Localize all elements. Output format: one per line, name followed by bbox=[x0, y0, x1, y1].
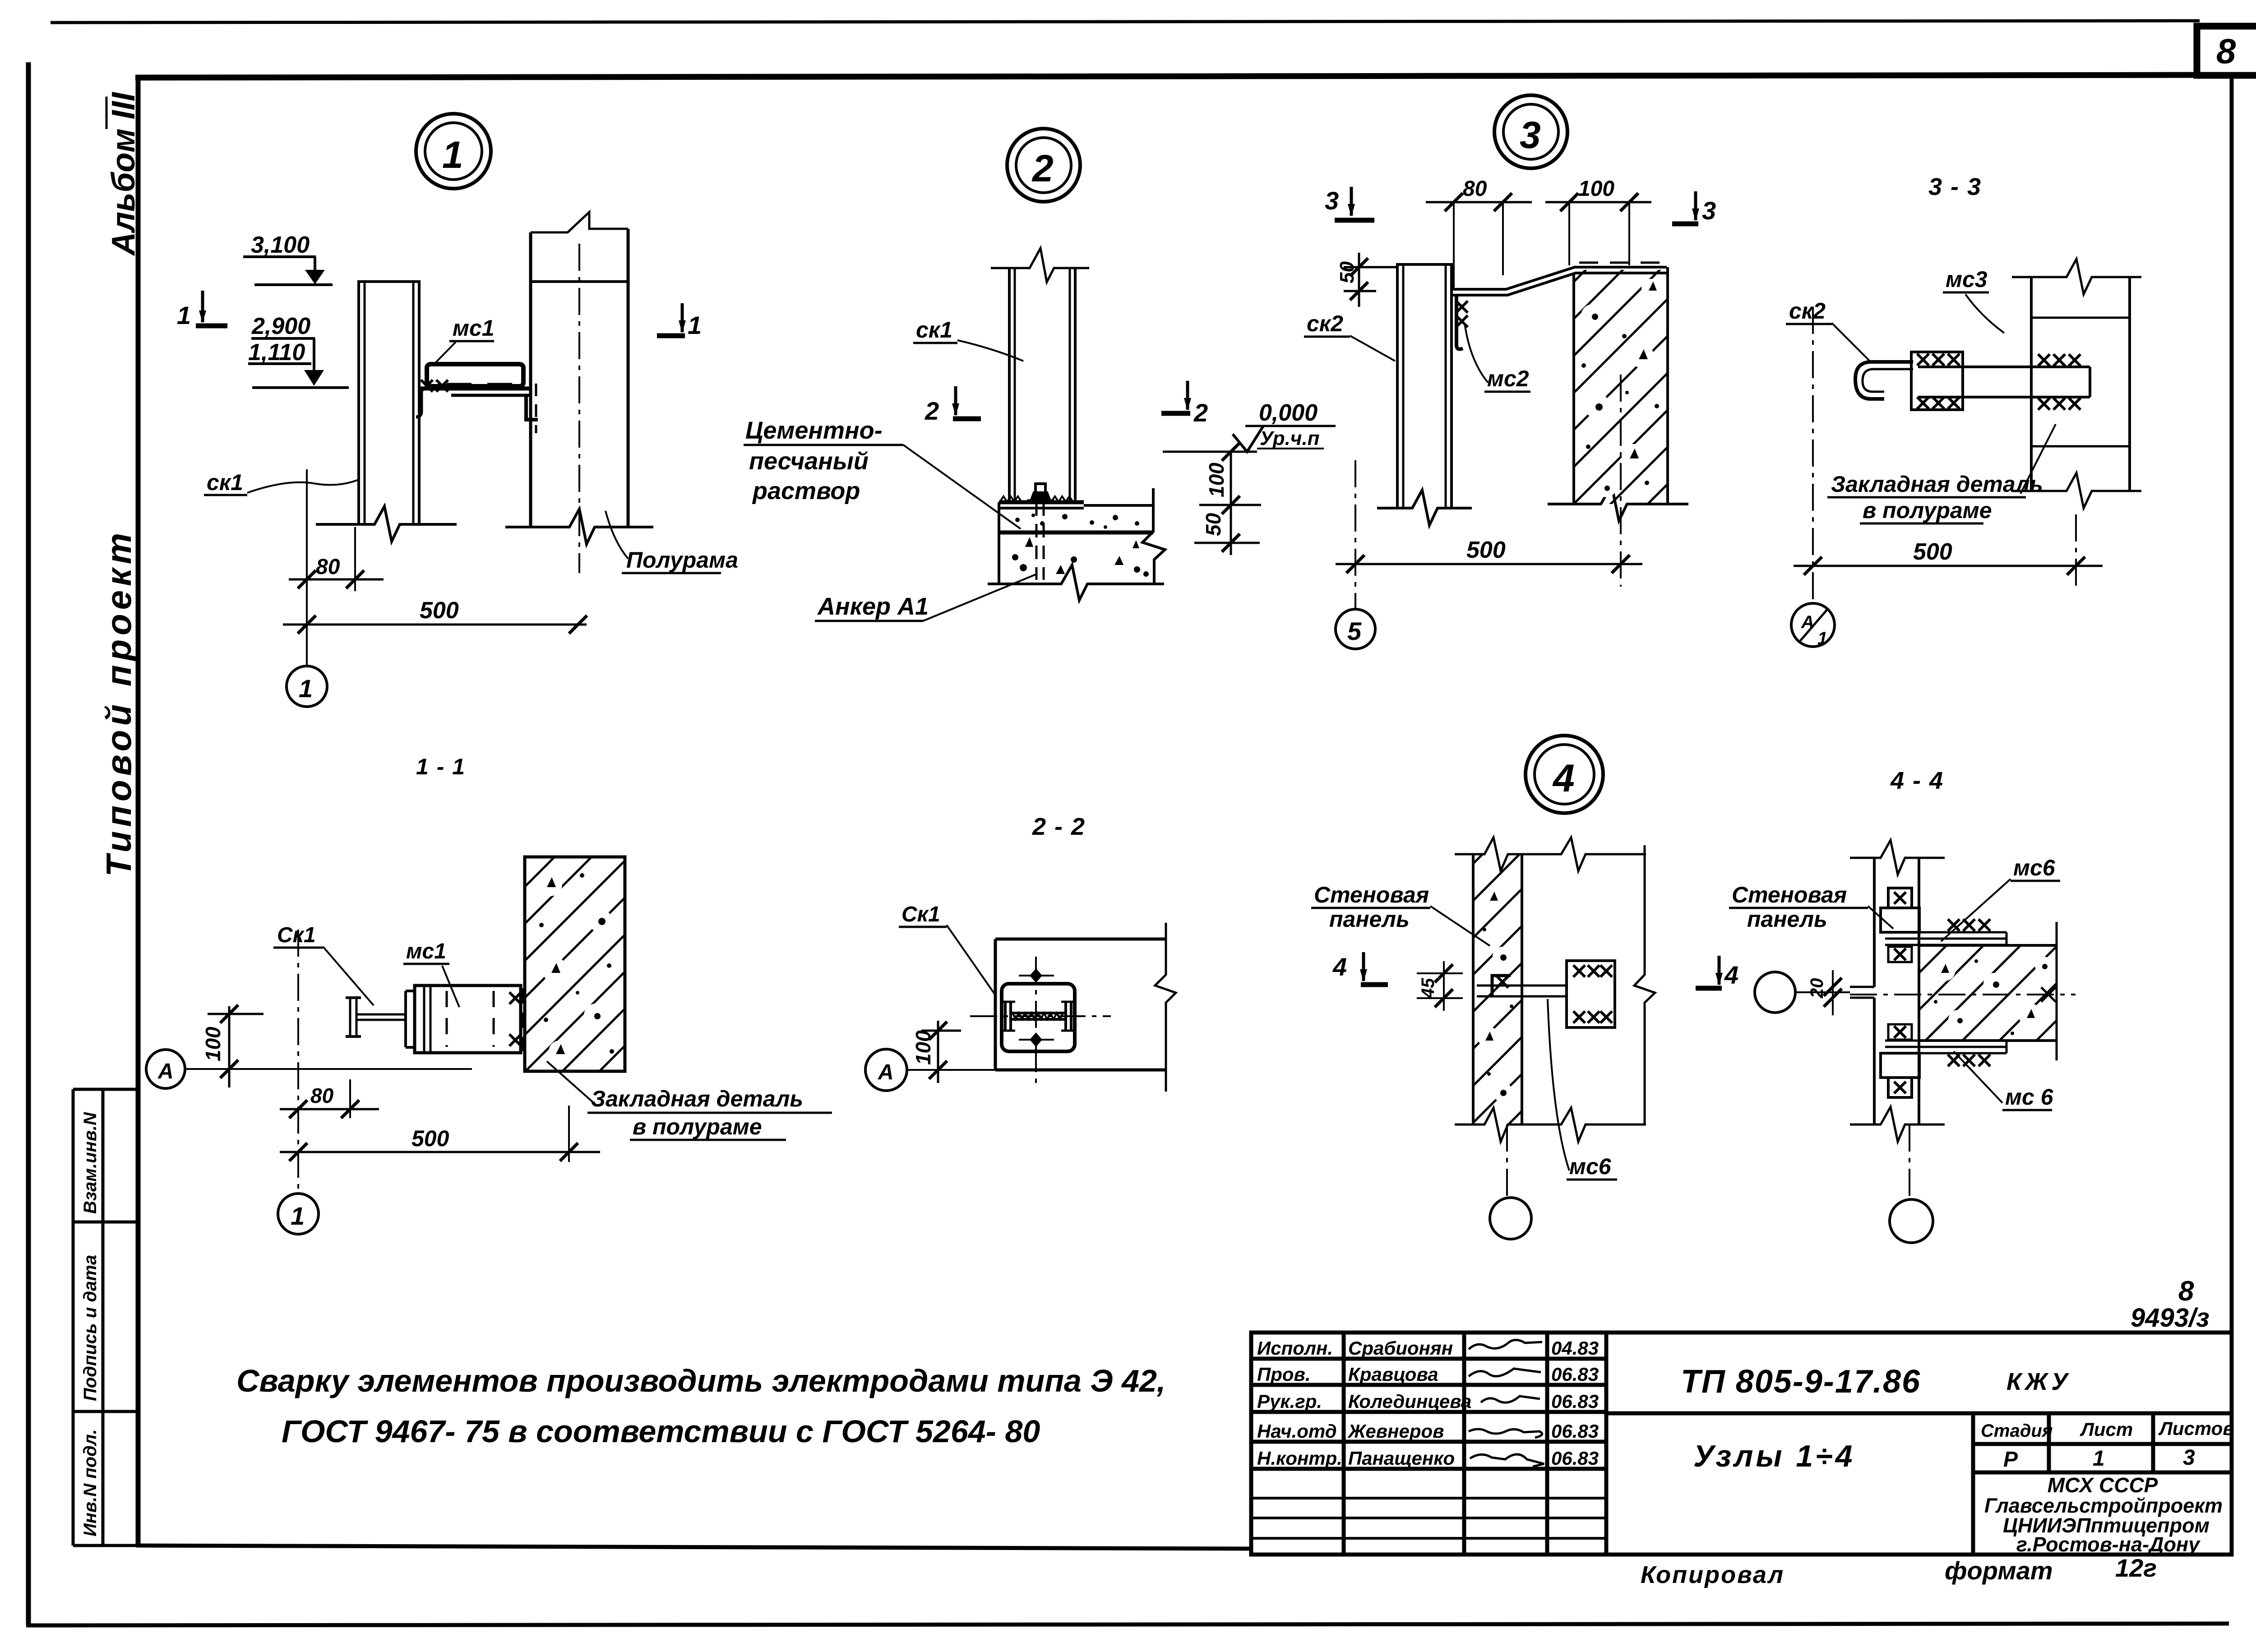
inner channel bbox=[1002, 984, 1075, 1051]
svg-text:Закладная деталь: Закладная деталь bbox=[591, 1086, 803, 1111]
svg-text:панель: панель bbox=[1329, 907, 1410, 932]
anchor bolt bbox=[1027, 484, 1054, 501]
svg-text:Колединцева: Колединцева bbox=[1348, 1391, 1471, 1412]
dims 100 / 50 bbox=[1230, 452, 1232, 555]
svg-text:100: 100 bbox=[1578, 177, 1614, 201]
svg-text:80: 80 bbox=[316, 555, 340, 579]
polurama column (right) bbox=[531, 212, 628, 573]
svg-text:КЖУ: КЖУ bbox=[2006, 1368, 2071, 1395]
svg-text:мс3: мс3 bbox=[1946, 267, 1988, 292]
svg-text:мс2: мс2 bbox=[1487, 366, 1529, 391]
dim 500 (3-3) bbox=[1794, 565, 2103, 567]
svg-text:3: 3 bbox=[1520, 114, 1541, 156]
svg-text:3: 3 bbox=[1702, 196, 1716, 225]
dim 50 (top of column) bbox=[1358, 253, 1360, 307]
svg-text:г.Ростов-на-Дону: г.Ростов-на-Дону bbox=[2016, 1533, 2201, 1556]
block outline with break bbox=[995, 923, 1176, 1092]
axis 1 bbox=[306, 469, 308, 666]
svg-text:Ск1: Ск1 bbox=[277, 923, 316, 947]
svg-text:1: 1 bbox=[2093, 1447, 2105, 1471]
dim 500 bbox=[283, 624, 587, 626]
svg-text:мс1: мс1 bbox=[453, 315, 495, 341]
svg-text:1: 1 bbox=[688, 311, 702, 339]
mortar layer bbox=[999, 502, 1153, 532]
svg-text:5: 5 bbox=[1347, 617, 1362, 645]
svg-text:А: А bbox=[157, 1060, 174, 1083]
svg-text:2: 2 bbox=[925, 397, 939, 425]
top clamp bbox=[1881, 888, 1919, 962]
section mark 4 (right) bbox=[1718, 956, 1721, 985]
anchor dashed lines bbox=[1036, 502, 1038, 580]
svg-text:Срабионян: Срабионян bbox=[1348, 1337, 1453, 1359]
svg-text:06.83: 06.83 bbox=[1551, 1364, 1599, 1385]
svg-text:0,000: 0,000 bbox=[1259, 400, 1318, 426]
svg-text:Пров.: Пров. bbox=[1257, 1364, 1311, 1385]
bracket mc1 channel bbox=[406, 986, 521, 1053]
svg-text:Н.контр.: Н.контр. bbox=[1257, 1448, 1342, 1469]
concrete foundation bbox=[988, 488, 1165, 600]
polurama column bbox=[2012, 259, 2141, 508]
bolts (diamonds) bbox=[1030, 968, 1042, 1047]
section mark 1 (left) bbox=[201, 291, 204, 322]
concrete block (polurama section) bbox=[525, 857, 625, 1071]
svg-text:Сварку элементов производит: Сварку элементов производить электродами… bbox=[236, 1363, 1165, 1398]
svg-text:в полураме: в полураме bbox=[1863, 498, 1992, 523]
centerlines bbox=[970, 1015, 1111, 1017]
svg-text:2 - 2: 2 - 2 bbox=[1032, 813, 1086, 840]
svg-text:Нач.отд: Нач.отд bbox=[1257, 1421, 1337, 1442]
svg-text:в полураме: в полураме bbox=[633, 1114, 762, 1139]
vertical axis line + centerline bbox=[297, 930, 299, 1194]
svg-text:100: 100 bbox=[1205, 463, 1228, 497]
svg-text:ск1: ск1 bbox=[207, 470, 243, 495]
node circle 3 bbox=[1494, 95, 1567, 168]
svg-text:Рук.гр.: Рук.гр. bbox=[1257, 1391, 1322, 1412]
dim 80 bbox=[306, 519, 308, 596]
joint dim 20 + circle bbox=[1755, 972, 1795, 1013]
svg-text:500: 500 bbox=[1466, 537, 1506, 563]
elevation mark 3,100 bbox=[243, 257, 333, 285]
svg-text:4: 4 bbox=[1724, 961, 1738, 989]
svg-text:Стеновая: Стеновая bbox=[1314, 882, 1429, 907]
svg-text:формат: формат bbox=[1945, 1556, 2053, 1585]
svg-text:Исполн.: Исполн. bbox=[1257, 1337, 1333, 1359]
concrete block bbox=[1919, 945, 2057, 1041]
top plate bbox=[1885, 932, 2006, 945]
svg-text:Цементно-: Цементно- bbox=[745, 417, 883, 444]
svg-text:ГОСТ 9467- 75 в соответствии: ГОСТ 9467- 75 в соответствии с ГОСТ 5264… bbox=[282, 1414, 1040, 1449]
svg-text:ск2: ск2 bbox=[1307, 311, 1343, 336]
bracket mc1 bbox=[416, 364, 538, 420]
column CK2 bbox=[1377, 264, 1472, 525]
bottom plate bbox=[1885, 1041, 2006, 1053]
node circle 4 bbox=[1526, 736, 1603, 813]
joint bar mc6 bbox=[1477, 976, 1606, 996]
axis A/1 for 3-3 bbox=[1812, 307, 1814, 603]
svg-text:06.83: 06.83 bbox=[1551, 1421, 1599, 1442]
svg-text:Подпись и дата: Подпись и дата bbox=[80, 1255, 100, 1401]
svg-text:раствор: раствор bbox=[752, 477, 860, 504]
section mark 2 (right) bbox=[1186, 381, 1189, 410]
elevation mark 2,900 / 1,110 bbox=[248, 338, 349, 388]
I-beam of CK1 bbox=[346, 998, 406, 1037]
axis A bbox=[146, 1050, 185, 1088]
svg-text:мс6: мс6 bbox=[2013, 855, 2056, 880]
svg-text:100: 100 bbox=[911, 1030, 935, 1065]
svg-text:Кравцова: Кравцова bbox=[1348, 1364, 1438, 1385]
wall panel (vertical) bbox=[1850, 840, 1945, 1142]
svg-text:Р: Р bbox=[2003, 1448, 2018, 1472]
svg-text:Полурама: Полурама bbox=[626, 547, 738, 573]
svg-text:2: 2 bbox=[1193, 398, 1208, 427]
svg-text:песчаный: песчаный bbox=[749, 448, 869, 475]
svg-text:Альбом III: Альбом III bbox=[106, 92, 142, 256]
dim 100 bbox=[937, 1021, 939, 1083]
svg-text:ск1: ск1 bbox=[916, 317, 952, 342]
section mark 3 (right) bbox=[1694, 191, 1697, 220]
svg-text:1 - 1: 1 - 1 bbox=[416, 754, 466, 779]
svg-text:Узлы 1÷4: Узлы 1÷4 bbox=[1693, 1439, 1855, 1473]
svg-text:1: 1 bbox=[1817, 629, 1827, 648]
svg-text:А: А bbox=[1801, 612, 1814, 632]
svg-text:20: 20 bbox=[1807, 978, 1827, 999]
svg-text:04.83: 04.83 bbox=[1551, 1337, 1599, 1359]
svg-text:3: 3 bbox=[2183, 1446, 2195, 1470]
axis line + circle bbox=[1506, 1124, 1508, 1197]
dim 80 bbox=[1426, 201, 1532, 204]
column CK1 (left post) bbox=[357, 282, 421, 524]
svg-text:1: 1 bbox=[442, 134, 463, 176]
svg-text:панель: панель bbox=[1747, 907, 1827, 932]
svg-text:3,100: 3,100 bbox=[251, 232, 310, 258]
svg-text:9493/з: 9493/з bbox=[2131, 1303, 2210, 1333]
CK2 hook bbox=[1855, 362, 1913, 399]
section mark 1 (right) bbox=[681, 303, 684, 332]
node circle 1 bbox=[416, 114, 491, 189]
svg-text:4: 4 bbox=[1332, 953, 1347, 981]
svg-text:4: 4 bbox=[1552, 757, 1575, 800]
svg-text:3 - 3: 3 - 3 bbox=[1928, 173, 1982, 200]
svg-text:Ур.ч.п: Ур.ч.п bbox=[1260, 427, 1320, 449]
svg-text:80: 80 bbox=[310, 1084, 334, 1107]
bracket mc2 plate bbox=[1452, 263, 1667, 349]
svg-text:500: 500 bbox=[1913, 539, 1952, 565]
svg-text:45: 45 bbox=[1418, 978, 1438, 999]
svg-text:ск2: ск2 bbox=[1789, 298, 1826, 324]
svg-text:06.83: 06.83 bbox=[1551, 1391, 1599, 1412]
svg-text:Панащенко: Панащенко bbox=[1348, 1448, 1455, 1469]
I-beam section bbox=[1001, 1002, 1076, 1031]
svg-text:Стадия: Стадия bbox=[1981, 1421, 2053, 1441]
dim 45 bbox=[1417, 972, 1463, 974]
svg-text:МСХ СССР: МСХ СССР bbox=[2048, 1473, 2158, 1497]
svg-text:4 - 4: 4 - 4 bbox=[1890, 767, 1944, 794]
embedded plate bbox=[1567, 961, 1615, 1027]
svg-text:1,110: 1,110 bbox=[248, 339, 305, 366]
svg-text:Анкер А1: Анкер А1 bbox=[817, 593, 929, 620]
dim 500 bbox=[280, 1151, 600, 1153]
svg-text:мс6: мс6 bbox=[1569, 1154, 1612, 1179]
svg-text:Инв.N подл.: Инв.N подл. bbox=[80, 1429, 100, 1536]
embedded plate (закладная деталь) bbox=[1911, 352, 2090, 410]
svg-text:мс1: мс1 bbox=[406, 939, 446, 963]
svg-text:500: 500 bbox=[420, 597, 459, 624]
svg-text:50: 50 bbox=[1336, 261, 1358, 283]
svg-text:06.83: 06.83 bbox=[1551, 1448, 1599, 1469]
svg-text:Взам.инв.N: Взам.инв.N bbox=[80, 1112, 100, 1214]
svg-text:2,900: 2,900 bbox=[251, 313, 310, 339]
svg-text:Лист: Лист bbox=[2080, 1419, 2133, 1440]
baseplate bbox=[999, 500, 1084, 504]
svg-text:Стеновая: Стеновая bbox=[1732, 882, 1847, 907]
svg-text:3: 3 bbox=[1325, 186, 1339, 215]
axis 5 bbox=[1355, 460, 1356, 609]
concrete panel bbox=[1574, 270, 1668, 504]
svg-text:80: 80 bbox=[1463, 177, 1487, 201]
horizontal centerline bbox=[1850, 994, 2076, 995]
svg-text:Закладная деталь: Закладная деталь bbox=[1831, 472, 2043, 497]
svg-text:Типовой проект: Типовой проект bbox=[99, 529, 139, 877]
svg-text:100: 100 bbox=[201, 1027, 225, 1061]
sheet number box bbox=[2197, 26, 2256, 75]
axis circle 1 bbox=[278, 1194, 319, 1234]
svg-text:Листов: Листов bbox=[2158, 1418, 2234, 1439]
centerline of panel bbox=[1620, 375, 1622, 587]
wall panel strip bbox=[1473, 854, 1522, 1124]
dim 100 bbox=[228, 1006, 231, 1087]
bottom axis bbox=[1909, 1124, 1910, 1199]
node circle 2 bbox=[1007, 129, 1080, 202]
dim 500 bbox=[1336, 563, 1642, 565]
svg-text:2: 2 bbox=[1031, 147, 1054, 190]
dim 80 bbox=[280, 1108, 379, 1111]
svg-text:500: 500 bbox=[411, 1126, 449, 1151]
column CK1 post bbox=[991, 248, 1089, 502]
svg-text:Ск1: Ск1 bbox=[901, 902, 940, 926]
svg-text:8: 8 bbox=[2178, 1276, 2194, 1307]
svg-text:12г: 12г bbox=[2115, 1554, 2157, 1582]
svg-text:Копировал: Копировал bbox=[1641, 1561, 1784, 1588]
svg-text:мс 6: мс 6 bbox=[2005, 1084, 2054, 1110]
svg-text:1: 1 bbox=[177, 301, 191, 329]
svg-text:8: 8 bbox=[2216, 31, 2236, 71]
svg-text:1: 1 bbox=[299, 674, 313, 703]
dim 100 bbox=[1545, 201, 1651, 204]
bottom break marks bbox=[316, 506, 653, 544]
bottom clamp bbox=[1881, 1024, 1919, 1097]
svg-text:ТП 805-9-17.86: ТП 805-9-17.86 bbox=[1681, 1364, 1921, 1400]
svg-text:А: А bbox=[878, 1060, 894, 1084]
svg-text:Жевнеров: Жевнеров bbox=[1347, 1421, 1444, 1442]
svg-text:50: 50 bbox=[1202, 513, 1225, 536]
svg-text:1: 1 bbox=[291, 1202, 305, 1230]
axis A bbox=[865, 1049, 907, 1091]
